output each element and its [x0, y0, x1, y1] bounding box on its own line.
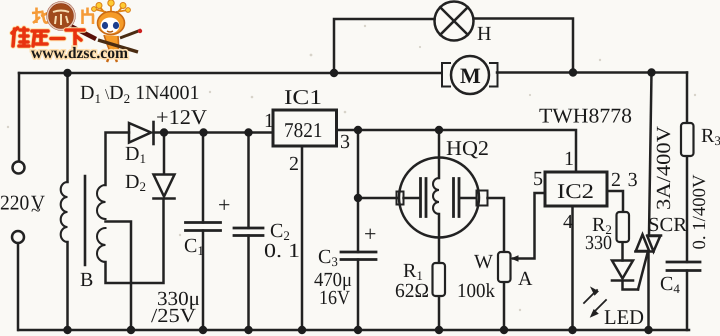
- wire +12V rail D1 to IC1 pin1: [154, 131, 274, 134]
- wire top-left rail y=73: [19, 72, 441, 75]
- wire D2 anode from +12V rail: [163, 133, 166, 175]
- wire HQ2 heater bottom to R1: [438, 214, 441, 263]
- node dot ground SCR: [644, 326, 652, 334]
- node dot ground C2: [244, 326, 252, 334]
- svg-text:1: 1: [264, 110, 274, 132]
- wire R1 bottom to ground: [438, 296, 441, 330]
- svg-text:D1: D1: [125, 143, 146, 166]
- svg-text:HQ2: HQ2: [446, 136, 489, 160]
- svg-text:0. 1/400V: 0. 1/400V: [690, 174, 710, 250]
- svg-text:2 3: 2 3: [611, 169, 638, 191]
- node dot C1 top: [199, 128, 207, 136]
- svg-text:330: 330: [585, 232, 612, 254]
- logo text weikuyixia: [12, 28, 84, 46]
- svg-text:100k: 100k: [457, 280, 495, 302]
- gas sensor HQ2 left terminal cap: [397, 192, 404, 205]
- svg-text:3A/400V: 3A/400V: [653, 125, 675, 210]
- wire sensor left lead: [358, 197, 419, 200]
- node dot ground primary: [63, 326, 71, 334]
- svg-text:C1: C1: [184, 235, 204, 258]
- logo mascot: [92, 0, 143, 62]
- potentiometer W body: [498, 252, 511, 282]
- wire lamp right to corner down: [474, 19, 574, 73]
- svg-text:+12V: +12V: [156, 105, 207, 129]
- svg-text:R3: R3: [701, 125, 720, 148]
- gas sensor HQ2 body circle: [399, 158, 479, 238]
- diode D1: [129, 122, 154, 144]
- transformer B core: [84, 176, 87, 265]
- wire lower terminal down to bottom rail: [17, 244, 20, 331]
- svg-text:SCR: SCR: [648, 214, 688, 236]
- wire secondary center tap to ground: [106, 222, 132, 331]
- terminal upper 220V: [13, 162, 25, 174]
- svg-text:C3: C3: [318, 246, 338, 269]
- wire C3 top: [357, 130, 360, 252]
- wire R3 to C4: [686, 156, 689, 262]
- svg-text:0. 1: 0. 1: [264, 240, 300, 262]
- capacitor C2 plates: [234, 228, 263, 236]
- motor M: [442, 56, 498, 94]
- wire IC1 pin3 output rail to IC2 pin1: [337, 130, 577, 172]
- wire SCR main lower to ground: [647, 253, 650, 331]
- lamp H: [435, 2, 474, 41]
- node dot ground center tap: [127, 326, 135, 334]
- gas sensor HQ2 right terminal cap: [477, 191, 488, 206]
- wire IC1 pin2 to ground: [301, 147, 304, 331]
- wire SCR gate diagonal: [638, 253, 648, 290]
- svg-text:/25V: /25V: [151, 305, 197, 327]
- svg-text:3: 3: [340, 131, 350, 153]
- gas sensor HQ2 heater coil: [433, 178, 439, 214]
- potentiometer W wiper arrow: [512, 256, 518, 261]
- transformer B secondary lower winding: [97, 228, 106, 262]
- node dot ground IC2 pin4: [568, 326, 576, 334]
- LED emission arrows: [584, 289, 606, 317]
- svg-text:+: +: [218, 192, 230, 217]
- wire bottom ground rail: [19, 329, 690, 332]
- svg-text:W: W: [474, 251, 493, 273]
- svg-text:+: +: [364, 221, 376, 246]
- diode D2: [154, 175, 175, 199]
- logo magnifier circle with xin char: [48, 3, 97, 40]
- wire C2 bottom: [247, 236, 250, 331]
- svg-text:D2: D2: [125, 171, 146, 194]
- svg-text:A: A: [518, 268, 533, 290]
- node dot lamp right meets motor line: [569, 68, 577, 76]
- transformer B secondary upper winding: [97, 185, 106, 219]
- wire IC2 pins 2,3 to R2: [607, 191, 623, 212]
- watermark logo group: [12, 0, 142, 62]
- svg-text:H: H: [477, 23, 491, 45]
- node dot ground W: [500, 326, 508, 334]
- svg-text:B: B: [80, 269, 93, 291]
- wire secondary top lead to D1: [106, 133, 130, 186]
- node dot top rail at primary: [63, 69, 71, 77]
- svg-text:TWH8778: TWH8778: [539, 104, 632, 128]
- svg-text:2: 2: [289, 153, 299, 175]
- gas sensor HQ2 left electrode plate: [421, 179, 427, 217]
- wire left rail vertical to terminal: [18, 73, 21, 161]
- svg-text:62Ω: 62Ω: [395, 280, 429, 302]
- svg-text:5: 5: [533, 168, 543, 190]
- svg-text:16V: 16V: [319, 287, 350, 309]
- node dot HQ2 top on pin3 rail: [435, 126, 443, 134]
- wire lamp branch up and left: [334, 19, 435, 73]
- node dot C3 top on pin3 rail: [354, 126, 362, 134]
- svg-text:1: 1: [564, 148, 574, 170]
- gas sensor HQ2 right electrode plate: [454, 179, 460, 217]
- wire C4 bottom to ground: [686, 271, 689, 331]
- logo char pian (piece): [83, 8, 95, 25]
- capacitor C1 plates: [186, 223, 221, 231]
- LED diode symbol: [612, 261, 633, 281]
- wire C1 bottom: [202, 231, 205, 331]
- capacitor C4 plates: [667, 262, 700, 271]
- wire IC2 pin4 to ground: [571, 207, 574, 331]
- node dot sensor left on C3 line: [354, 194, 362, 202]
- svg-text:C4: C4: [660, 273, 680, 296]
- node dot D2 on +12V rail: [160, 128, 168, 136]
- wire LED cathode to SCR gate: [623, 281, 639, 290]
- node dot ground C3: [354, 326, 362, 334]
- svg-text:D1 \D2 1N4001: D1 \D2 1N4001: [80, 82, 200, 106]
- regulator IC1 box: [273, 110, 337, 146]
- node dot ground IC1 pin2: [298, 326, 306, 334]
- triac SCR symbol: [636, 235, 662, 252]
- controller IC2 box: [545, 172, 607, 206]
- svg-text:IC2: IC2: [557, 179, 594, 203]
- logo char zhao (find): [32, 8, 48, 24]
- wire HQ2 heater top: [438, 130, 441, 178]
- node dot lamp branch: [330, 69, 338, 77]
- transformer B primary winding: [61, 182, 68, 242]
- svg-text:www.dzsc.com: www.dzsc.com: [31, 45, 129, 62]
- wire motor right to R3 corner: [497, 71, 687, 74]
- svg-text:~: ~: [31, 200, 41, 220]
- wire W pot bottom to ground: [503, 282, 506, 330]
- node dot C2 top: [244, 128, 252, 136]
- wire R3 branch top: [686, 73, 689, 124]
- wire C2 top: [247, 133, 250, 229]
- terminal lower 220V: [12, 231, 24, 243]
- node dot SCR branch top: [647, 68, 655, 76]
- node dot ground C1: [199, 326, 207, 334]
- wire primary bottom: [66, 242, 69, 330]
- svg-text:IC1: IC1: [284, 85, 322, 109]
- resistor R1 body: [433, 263, 446, 296]
- capacitor C3 plates: [341, 252, 376, 260]
- node dot ground R1: [435, 326, 443, 334]
- wire C1 top: [202, 133, 205, 223]
- resistor R2 body: [617, 212, 630, 242]
- wire secondary bottom lead to D2 cathode: [106, 200, 164, 284]
- wire sensor right lead to W top: [460, 198, 505, 252]
- wire SCR main upper: [649, 73, 652, 235]
- wire R2 to LED anode: [621, 242, 624, 261]
- wire C3 bottom: [357, 260, 360, 331]
- svg-text:M: M: [460, 63, 481, 88]
- svg-text:LED: LED: [604, 305, 644, 329]
- resistor R3 body: [681, 123, 694, 156]
- svg-text:7821: 7821: [284, 118, 323, 142]
- svg-text:4: 4: [563, 211, 573, 233]
- wire primary top: [66, 73, 69, 182]
- wire W wiper to IC2 pin5: [513, 193, 545, 259]
